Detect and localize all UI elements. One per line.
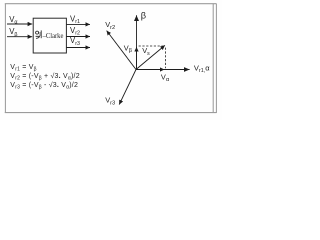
frame top border <box>5 3 217 5</box>
vector Vr3 <box>119 70 136 105</box>
svg-text:–Clarke: –Clarke <box>42 31 64 40</box>
frame right border outer line <box>215 4 217 113</box>
vector Vr2 <box>107 31 136 70</box>
wire output Vr3 <box>66 47 90 49</box>
frame left border <box>4 4 6 113</box>
block label: Hangul char '역' drawn as strokes <box>36 30 42 38</box>
vector Vbeta on beta axis <box>136 47 138 70</box>
frame bottom border <box>5 112 217 114</box>
dashed projection horizontal from beta axis to Vs tip <box>139 45 164 47</box>
axis beta vertical <box>136 15 138 69</box>
vector Valpha on alpha axis <box>136 69 164 71</box>
frame right border inner line <box>212 4 214 113</box>
axis alpha horizontal <box>136 69 190 71</box>
wire output Vr1 <box>66 23 90 25</box>
wire input V_beta <box>7 36 32 38</box>
svg-text:β: β <box>141 11 146 21</box>
vector Vs <box>136 45 165 69</box>
wire output Vr2 <box>66 36 90 38</box>
block U1: inverse Clarke transform box <box>33 18 66 53</box>
wire input V_alpha <box>7 23 32 25</box>
dashed projection vertical from Vs tip to alpha axis <box>165 48 167 69</box>
